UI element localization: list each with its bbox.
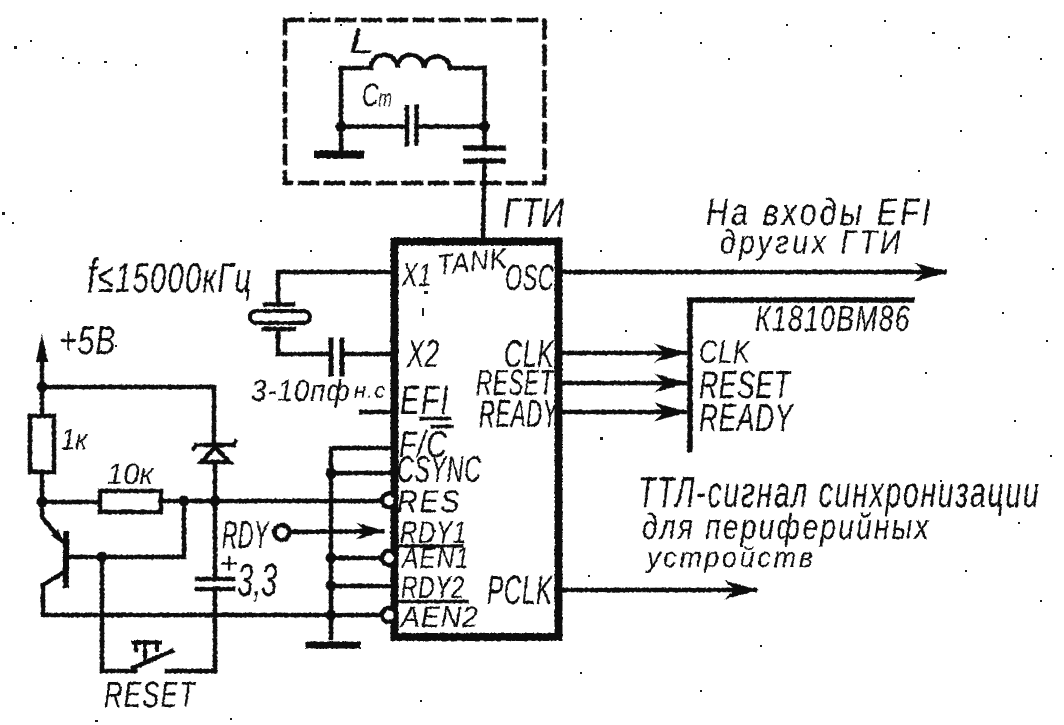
svg-text:RESET: RESET bbox=[104, 675, 196, 715]
wire LC loop right side bbox=[482, 68, 487, 127]
svg-text:AEN2: AEN2 bbox=[399, 601, 479, 634]
svg-text:+5В: +5В bbox=[59, 319, 116, 363]
wire LC loop bottom right bbox=[421, 124, 485, 129]
wire READY output bbox=[560, 410, 685, 415]
wire PCLK output bbox=[560, 588, 755, 593]
pin F/C overline bbox=[432, 425, 452, 429]
capacitor Ct bbox=[407, 107, 417, 144]
node supply junction bbox=[37, 382, 48, 393]
diode VD1 zener bbox=[196, 443, 233, 448]
svg-text:RDY: RDY bbox=[222, 513, 270, 556]
node diode junction bbox=[210, 496, 221, 507]
resistor R1 1k bbox=[30, 416, 54, 472]
wire C2 to switch bbox=[172, 589, 215, 671]
svg-text:PCLK: PCLK bbox=[487, 569, 554, 614]
svg-text:X2: X2 bbox=[406, 332, 439, 376]
svg-text:3,3: 3,3 bbox=[237, 555, 278, 607]
svg-text:устройств: устройств bbox=[645, 541, 816, 573]
power +5V arrow bbox=[40, 356, 45, 390]
ground bus for strap pins bbox=[331, 448, 394, 638]
wire R2 to RES pin bbox=[161, 499, 380, 504]
wire crystal to trimmer capacitor bbox=[278, 331, 327, 354]
pin EFI underline bbox=[421, 417, 450, 421]
pin AEN1 inversion bubble bbox=[382, 551, 396, 565]
svg-text:других ГТИ: других ГТИ bbox=[720, 223, 904, 261]
wire capacitor to TANK pin bbox=[483, 161, 485, 241]
svg-text:READY: READY bbox=[699, 397, 795, 440]
pin EFI stub n.c. bbox=[361, 410, 394, 415]
svg-text:н.с: н.с bbox=[354, 378, 386, 403]
CPU block K1810VM86 partial outline bbox=[690, 300, 912, 450]
node AEN1 junction bbox=[326, 553, 337, 564]
switch SB1 blade bbox=[133, 651, 172, 668]
wire diode node to C2 bbox=[213, 501, 218, 579]
pin AEN2 inversion bubble bbox=[382, 608, 396, 622]
capacitor C2 3.3uF bbox=[197, 579, 233, 589]
wire X1 to crystal bbox=[278, 272, 394, 303]
wire OSC output bbox=[560, 270, 944, 275]
transistor VT1 collector bbox=[43, 571, 66, 615]
svg-text:3-10пф: 3-10пф bbox=[251, 375, 350, 408]
terminal RDY open circle bbox=[275, 525, 290, 540]
wire R1 to node bbox=[40, 472, 45, 502]
svg-text:f≤15000кГц: f≤15000кГц bbox=[87, 249, 253, 302]
node LC right junction bbox=[479, 121, 490, 132]
wire LC loop left side bbox=[339, 68, 344, 127]
node LC left junction bbox=[336, 121, 347, 132]
wire RESET output bbox=[560, 381, 685, 386]
svg-text:OSC: OSC bbox=[505, 259, 554, 299]
wire supply to R1 bbox=[40, 390, 45, 416]
wire AEN1 strap bbox=[331, 556, 380, 561]
crystal ZQ1 bbox=[265, 302, 293, 307]
svg-text:10к: 10к bbox=[107, 458, 154, 491]
capacitor C1 (TANK coupling) bbox=[466, 148, 503, 161]
switch SB1 pushbutton actuator bbox=[134, 642, 161, 662]
svg-text:X1: X1 bbox=[401, 257, 432, 294]
svg-text:READY: READY bbox=[479, 391, 559, 435]
svg-text:RDY2: RDY2 bbox=[401, 569, 465, 604]
transistor VT1 emitter bbox=[42, 502, 61, 540]
wire collector to AEN2 bbox=[43, 613, 380, 618]
pin RES inversion bubble bbox=[382, 494, 396, 508]
wire RDY2 strap bbox=[331, 584, 394, 589]
IC U1 clock generator box bbox=[395, 242, 559, 638]
wire base bbox=[66, 555, 102, 560]
dashed enclosure of LC tank bbox=[285, 20, 545, 183]
wire diode anode down bbox=[213, 462, 218, 501]
capacitor C3 trimmer 3-10pF bbox=[331, 340, 342, 374]
node R1 bottom junction bbox=[37, 497, 48, 508]
wire LC loop bottom left bbox=[341, 124, 404, 129]
svg-text:EFI: EFI bbox=[400, 378, 450, 423]
node CSYNC junction bbox=[326, 468, 337, 479]
pin RDY2 underline bbox=[399, 600, 467, 604]
wire node to R2 bbox=[42, 500, 100, 505]
wire CSYNC strap bbox=[331, 471, 394, 476]
inductor L bbox=[341, 55, 485, 68]
wire base to R2 junction bbox=[102, 501, 184, 557]
pin RDY1 underline bbox=[400, 544, 462, 548]
switch SB1 right lead bbox=[167, 669, 215, 674]
switch SB1 left lead bbox=[102, 669, 135, 674]
wire supply rail to diode bbox=[42, 387, 214, 443]
wire trimmer to X2 bbox=[345, 352, 394, 357]
node AEN2 junction bbox=[326, 610, 337, 621]
svg-text:ГТИ: ГТИ bbox=[503, 189, 565, 236]
wire LC node to series capacitor bbox=[482, 127, 487, 150]
node RDY2 junction bbox=[326, 581, 337, 592]
ground of tank bbox=[339, 127, 344, 151]
svg-text:TANK: TANK bbox=[435, 241, 510, 281]
ground of bus bbox=[309, 642, 357, 649]
svg-text:К1810ВМ86: К1810ВМ86 bbox=[755, 299, 911, 339]
node R2 right junction bbox=[179, 496, 190, 507]
wire CLK output bbox=[560, 351, 685, 356]
resistor R2 10k bbox=[100, 491, 161, 512]
node base junction bbox=[97, 552, 108, 563]
wire base node to switch bbox=[100, 557, 105, 669]
transistor VT1 base bar bbox=[63, 534, 69, 585]
wire RDY to RDY1 pin with arrow bbox=[290, 529, 382, 534]
svg-text:L: L bbox=[349, 22, 375, 61]
svg-text:Ст: Ст bbox=[362, 77, 392, 113]
svg-text:1к: 1к bbox=[61, 423, 88, 456]
